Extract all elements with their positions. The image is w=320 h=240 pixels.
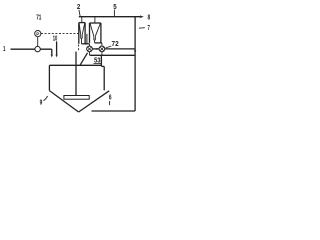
pump 53 left circle — [87, 46, 93, 52]
top overflow line — [79, 16, 140, 18]
leader 9 — [43, 96, 47, 101]
svg-text:10: 10 — [53, 33, 58, 42]
pump stub 2 — [101, 43, 103, 46]
leader 72 — [106, 46, 112, 48]
funnel unit 1 left wall — [78, 23, 80, 44]
svg-text:2: 2 — [77, 2, 80, 11]
funnel unit 1 top edge — [79, 22, 85, 24]
funnel unit 2 spout — [94, 40, 96, 43]
tick 6 — [109, 101, 111, 105]
svg-text:5: 5 — [113, 2, 116, 11]
pump stub 1 — [89, 44, 91, 46]
funnel unit 2 right wall — [100, 23, 102, 43]
tank top — [49, 64, 101, 66]
svg-text:7: 7 — [148, 23, 150, 32]
leader 7 — [139, 27, 145, 30]
right wall pipe 7 — [134, 17, 136, 111]
manifold line — [90, 54, 135, 56]
gauge 71 circle — [35, 30, 41, 36]
tank left wall — [48, 65, 50, 90]
inter-unit bar — [86, 34, 88, 44]
pump bottom stub right — [101, 52, 103, 56]
stirrer bar — [64, 96, 89, 100]
arrow feed 10 — [56, 41, 58, 54]
stirrer shaft — [75, 52, 77, 96]
tank cone left — [49, 91, 78, 112]
pump 72 right circle — [99, 46, 105, 52]
funnel unit 2 top edge — [90, 22, 101, 24]
tank cone right — [79, 91, 110, 112]
inter-pump line — [92, 48, 99, 50]
funnel unit 2 left wall — [89, 23, 91, 43]
svg-text:P: P — [36, 32, 39, 37]
svg-text:6: 6 — [109, 92, 112, 101]
wire gauge to valve — [37, 37, 39, 47]
valve circle — [35, 46, 40, 51]
collector line 1 — [81, 43, 89, 45]
drop rod 2 — [94, 17, 96, 23]
leader 5 — [113, 10, 115, 17]
svg-text:72: 72 — [112, 39, 119, 48]
funnel unit 1 right wall — [84, 23, 86, 44]
collector line 2 — [95, 42, 102, 44]
funnel unit 2 cone — [90, 23, 100, 36]
funnel unit 1 cone — [79, 23, 85, 35]
svg-text:8: 8 — [147, 13, 150, 22]
svg-text:71: 71 — [36, 12, 41, 21]
downcomer pipe — [100, 55, 102, 66]
underline 53 — [94, 63, 102, 65]
funnel unit 1 spout — [80, 39, 82, 44]
dashed control drop — [78, 45, 80, 52]
funnel unit 1 u-tube — [81, 35, 83, 39]
dashed control line — [41, 33, 79, 35]
pump bottom stub left — [89, 52, 91, 56]
drop rod 1 — [81, 17, 83, 23]
flow arrow on wall — [134, 50, 136, 53]
svg-text:9: 9 — [40, 98, 43, 107]
bottom channel line — [92, 110, 136, 112]
svg-text:1: 1 — [3, 44, 5, 53]
leader 2 — [79, 10, 80, 17]
feed line 1 — [11, 49, 52, 55]
diagonal into tank — [80, 53, 87, 65]
funnel unit 2 u-tube — [94, 36, 96, 40]
discharge line right pump — [105, 48, 135, 50]
